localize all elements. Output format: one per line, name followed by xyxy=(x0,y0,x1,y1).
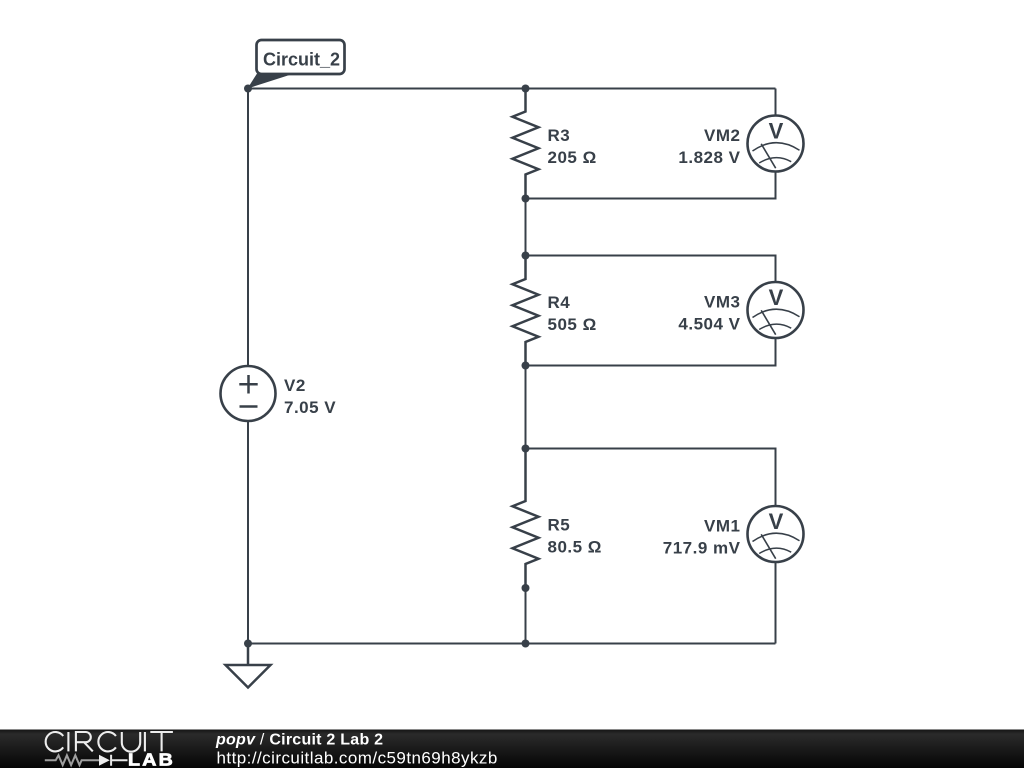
node top-left xyxy=(244,85,252,93)
wire middle rail segment 2 xyxy=(525,366,527,449)
voltmeter VM3 xyxy=(748,282,804,338)
wire middle rail segment 3 xyxy=(525,588,527,644)
svg-text:4.504 V: 4.504 V xyxy=(678,315,740,334)
svg-text:505 Ω: 505 Ω xyxy=(548,315,597,334)
label Circuit_2 callout xyxy=(248,40,345,89)
voltmeter VM1 xyxy=(748,506,804,562)
voltmeter VM2 xyxy=(748,116,804,172)
label V2 value xyxy=(284,376,336,417)
wire bottom rail xyxy=(248,643,776,645)
resistor R3 xyxy=(513,89,539,199)
footer logo CIRCUIT xyxy=(46,732,173,752)
svg-text:V: V xyxy=(769,285,784,310)
label VM2 value xyxy=(678,126,740,167)
node R5 bottom xyxy=(522,584,530,592)
footer bar xyxy=(0,730,1024,768)
svg-text:Circuit_2: Circuit_2 xyxy=(263,50,340,70)
svg-text:http://circuitlab.com/c59tn69h: http://circuitlab.com/c59tn69h8ykzb xyxy=(217,749,498,768)
svg-text:717.9 mV: 717.9 mV xyxy=(663,539,741,558)
svg-text:80.5 Ω: 80.5 Ω xyxy=(548,538,602,557)
node R4 bottom xyxy=(522,362,530,370)
label VM3 value xyxy=(678,293,740,334)
svg-text:205 Ω: 205 Ω xyxy=(548,148,597,167)
node R5 top xyxy=(522,445,530,453)
svg-text:1.828 V: 1.828 V xyxy=(678,148,740,167)
node bottom-left xyxy=(244,640,252,648)
svg-text:R4: R4 xyxy=(548,293,571,312)
node R3 bottom xyxy=(522,195,530,203)
svg-text:V2: V2 xyxy=(284,376,306,395)
label VM1 value xyxy=(663,517,741,558)
svg-text:V: V xyxy=(769,119,784,144)
svg-text:LAB: LAB xyxy=(128,749,175,768)
label R5 value xyxy=(548,516,602,557)
svg-text:R5: R5 xyxy=(548,516,571,535)
node top-mid xyxy=(522,85,530,93)
voltage source V2 xyxy=(221,366,276,421)
wire left rail lower xyxy=(247,420,249,644)
resistor R5 xyxy=(513,449,539,589)
svg-text:7.05 V: 7.05 V xyxy=(284,398,336,417)
footer logo symbol xyxy=(45,755,128,766)
resistor R4 xyxy=(513,256,539,366)
svg-text:VM3: VM3 xyxy=(704,293,740,312)
wire middle rail segment 1 xyxy=(525,199,527,256)
svg-text:R3: R3 xyxy=(548,126,571,145)
wire left rail upper xyxy=(247,89,249,367)
svg-text:VM1: VM1 xyxy=(704,517,740,536)
node R4 top xyxy=(522,252,530,260)
wire top rail xyxy=(248,88,776,90)
wire loop3 right xyxy=(526,449,776,644)
node bottom-mid xyxy=(522,640,530,648)
label R4 value xyxy=(548,293,597,334)
label R3 value xyxy=(548,126,597,167)
wire loop1 right xyxy=(526,89,776,199)
ground xyxy=(226,644,271,688)
svg-text:V: V xyxy=(769,509,784,534)
svg-text:popv / Circuit 2 Lab 2: popv / Circuit 2 Lab 2 xyxy=(215,732,383,749)
svg-text:VM2: VM2 xyxy=(704,126,740,145)
wire loop2 right xyxy=(526,256,776,366)
